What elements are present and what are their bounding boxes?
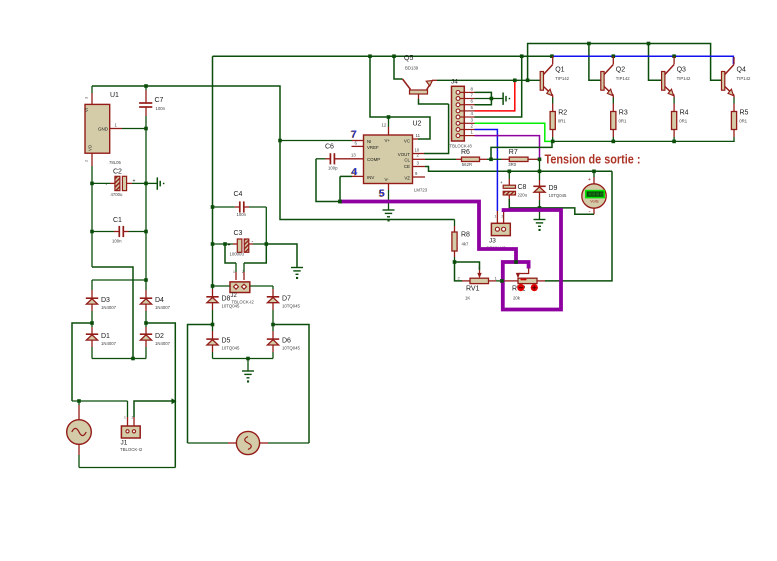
svg-text:2: 2 bbox=[132, 416, 134, 420]
wire bridge1 left AC to source bbox=[72, 323, 92, 401]
U1 pin GND wire bbox=[110, 128, 122, 130]
transistor Q3 bbox=[662, 72, 665, 91]
capacitor C1 bbox=[90, 230, 94, 234]
wire base Q3 bbox=[649, 44, 662, 81]
diode D1 bbox=[91, 323, 93, 327]
svg-text:Q5: Q5 bbox=[404, 55, 413, 62]
wire output rail to RV2 bbox=[545, 171, 612, 281]
wire source1 bottom rail bbox=[79, 467, 175, 469]
svg-text:VO: VO bbox=[88, 144, 93, 151]
svg-text:C2: C2 bbox=[113, 169, 122, 176]
J4 pin 3 bbox=[460, 122, 475, 124]
wire J4 pin4 to rail bbox=[475, 56, 522, 117]
svg-text:Q3: Q3 bbox=[677, 67, 686, 74]
battery terminal at C2 row bbox=[146, 182, 157, 184]
wire emitter rail y141 bbox=[551, 140, 735, 142]
wire bridge1 bottom rail bbox=[92, 358, 146, 360]
transistor Q4 bbox=[722, 72, 725, 91]
wire base Q2 bbox=[589, 44, 601, 81]
U1 pin VO wire bbox=[91, 153, 93, 166]
node bridge1 left AC bbox=[90, 321, 94, 325]
svg-text:D5: D5 bbox=[222, 338, 231, 345]
wire C4 right down bbox=[265, 207, 267, 244]
wire Q5 emitter to base rail bbox=[432, 79, 437, 81]
resistor R8 bbox=[454, 220, 456, 227]
svg-text:TIP142: TIP142 bbox=[616, 76, 630, 81]
svg-text:D6: D6 bbox=[282, 338, 291, 345]
battery terminal at J4 bbox=[502, 93, 504, 105]
node purple T bbox=[514, 260, 518, 264]
potentiometer RV2 bbox=[518, 278, 537, 283]
svg-text:COMP: COMP bbox=[367, 157, 380, 162]
wire J4 pin3 lime bbox=[475, 123, 552, 141]
node purple T redraw bbox=[514, 260, 518, 264]
svg-text:R7: R7 bbox=[509, 149, 518, 156]
ground output bbox=[539, 208, 541, 220]
svg-text:2: 2 bbox=[502, 215, 504, 219]
svg-text:Q2: Q2 bbox=[616, 67, 625, 74]
regulator U1 bbox=[85, 104, 110, 153]
svg-text:3: 3 bbox=[478, 266, 480, 270]
wire bridge2 right AC to source2 bbox=[273, 325, 309, 444]
node bridge2 ground bbox=[246, 357, 250, 361]
node J2 left bbox=[211, 284, 215, 288]
svg-text:0R1: 0R1 bbox=[619, 118, 627, 123]
wire RV2 right bbox=[537, 280, 545, 282]
terminal block J3 bbox=[496, 211, 498, 223]
capacitor C3 bbox=[211, 242, 215, 246]
node R8 bottom bbox=[453, 260, 457, 264]
node rail-V+ drop bbox=[368, 54, 372, 58]
resistor R3 bbox=[611, 112, 616, 130]
wire mid column x146 bbox=[145, 129, 147, 281]
resistor R5 bbox=[731, 112, 736, 130]
svg-text:Volts: Volts bbox=[590, 198, 598, 203]
wire VOUT to Q5 base bbox=[413, 153, 425, 155]
wire J2 row left bbox=[213, 285, 230, 287]
svg-text:U2: U2 bbox=[413, 121, 422, 128]
resistor R4 bbox=[672, 112, 677, 130]
svg-text:Q4: Q4 bbox=[737, 67, 746, 74]
svg-text:C1: C1 bbox=[113, 217, 122, 224]
node analog ground bbox=[538, 206, 542, 210]
svg-text:3: 3 bbox=[85, 97, 89, 99]
U1 pin VI wire bbox=[91, 93, 93, 104]
wire J4 pin2 blue bbox=[475, 130, 498, 212]
node feedback redraw bbox=[338, 200, 342, 204]
svg-text:0R1: 0R1 bbox=[739, 118, 747, 123]
diode D3 bbox=[91, 280, 93, 290]
svg-text:TIP142: TIP142 bbox=[555, 76, 569, 81]
svg-text:100p: 100p bbox=[328, 166, 338, 171]
svg-text:1N4007: 1N4007 bbox=[155, 341, 171, 346]
node pin7 bbox=[490, 97, 494, 101]
transistor Q5 BD139 bbox=[394, 56, 403, 79]
terminal block J4 bbox=[452, 86, 465, 141]
svg-text:D4: D4 bbox=[155, 297, 164, 304]
svg-text:+: + bbox=[228, 243, 231, 249]
pin VREF stub bbox=[352, 145, 364, 147]
wire J4 pin5 red bbox=[475, 80, 515, 111]
IC U2 LM723 bbox=[364, 135, 413, 184]
svg-text:Q1: Q1 bbox=[555, 67, 564, 74]
svg-text:V+: V+ bbox=[385, 138, 391, 143]
svg-text:NI: NI bbox=[367, 139, 371, 144]
wire Q5 base down bbox=[418, 94, 420, 99]
potentiometer RV1 bbox=[462, 280, 470, 282]
node rail-Q5 drop bbox=[392, 54, 396, 58]
svg-text:D3: D3 bbox=[101, 297, 110, 304]
svg-text:10000u: 10000u bbox=[230, 252, 245, 257]
svg-text:4k7: 4k7 bbox=[462, 242, 470, 247]
wire node to output rail bbox=[539, 159, 541, 171]
capacitor C2 bbox=[90, 182, 94, 186]
node emitter R3 bbox=[612, 140, 616, 144]
node bridge2 right AC bbox=[271, 323, 275, 327]
svg-text:10TQ045: 10TQ045 bbox=[222, 346, 241, 351]
wire RV1-RV2 link bbox=[504, 280, 518, 282]
diode D6 bbox=[272, 325, 274, 332]
svg-text:J1: J1 bbox=[121, 439, 128, 446]
ground bridge2 bbox=[247, 359, 249, 372]
voltmeter bbox=[593, 171, 595, 177]
svg-text:TBLOCK-I8: TBLOCK-I8 bbox=[450, 144, 473, 149]
svg-text:R5: R5 bbox=[740, 110, 749, 117]
svg-text:R6: R6 bbox=[461, 149, 470, 156]
wire top rail y86 bbox=[92, 86, 455, 220]
terminal block J1 bbox=[127, 401, 129, 417]
svg-text:D2: D2 bbox=[155, 333, 164, 340]
node bridge2 left AC bbox=[211, 323, 215, 327]
J4 pin 8 bbox=[460, 91, 475, 93]
svg-text:TBLOCK-I2: TBLOCK-I2 bbox=[120, 447, 143, 452]
node base rail Q5 side bbox=[526, 79, 530, 83]
wire R8 to RV1 left bbox=[455, 262, 463, 281]
svg-text:3R0: 3R0 bbox=[508, 162, 516, 167]
wire J2 pin2 link bbox=[244, 244, 266, 263]
AC source V1 bbox=[78, 401, 80, 405]
svg-text:CL: CL bbox=[404, 157, 410, 162]
wire INV pin bbox=[352, 175, 364, 177]
resistor R7 bbox=[502, 158, 510, 160]
node bridge1 bottom bbox=[131, 357, 135, 361]
svg-text:C3: C3 bbox=[234, 230, 243, 237]
node purple-RV junction bbox=[500, 279, 504, 283]
wire left column x92 bbox=[91, 183, 93, 267]
svg-text:1K: 1K bbox=[465, 296, 470, 301]
svg-text:78L05: 78L05 bbox=[109, 160, 122, 165]
svg-text:1: 1 bbox=[495, 215, 497, 219]
node collector Q1 bbox=[550, 54, 554, 58]
svg-text:4700u: 4700u bbox=[111, 192, 124, 197]
J4 pin 7 bbox=[460, 98, 475, 100]
ground near C3 bbox=[291, 267, 303, 269]
wire collector bus blue bbox=[552, 56, 734, 64]
J4 pin 5 bbox=[460, 110, 475, 112]
node emitter R4 bbox=[672, 140, 676, 144]
diode D5 bbox=[212, 325, 214, 332]
svg-text:10TQ045: 10TQ045 bbox=[282, 303, 301, 308]
wire CE to output rail bbox=[413, 166, 426, 168]
svg-text:D1: D1 bbox=[101, 333, 110, 340]
wire bridge2 bottom rail bbox=[213, 358, 274, 360]
svg-text:220u: 220u bbox=[518, 193, 528, 198]
diode D4 bbox=[145, 280, 147, 290]
node feedback bbox=[338, 200, 342, 204]
svg-text:10TQ045: 10TQ045 bbox=[222, 303, 241, 308]
svg-text:R8: R8 bbox=[461, 232, 470, 239]
wire RV2 wiper bbox=[518, 268, 529, 274]
svg-text:VI: VI bbox=[84, 108, 89, 112]
svg-text:13: 13 bbox=[351, 153, 356, 158]
svg-text:2: 2 bbox=[242, 270, 244, 274]
node meter top bbox=[592, 170, 596, 174]
svg-text:VOUT: VOUT bbox=[398, 152, 411, 157]
svg-text:J2: J2 bbox=[231, 293, 238, 299]
wire R8 to RV1 wiper bbox=[455, 262, 480, 270]
node V+ junction bbox=[387, 115, 391, 119]
svg-text:VZ: VZ bbox=[404, 175, 410, 180]
diode D2 bbox=[145, 323, 147, 327]
wire C3 to ground bbox=[266, 244, 297, 268]
svg-text:V-: V- bbox=[385, 177, 390, 182]
svg-text:100n: 100n bbox=[156, 106, 166, 111]
J4 pin 4 bbox=[460, 116, 475, 118]
svg-text:10TQ045: 10TQ045 bbox=[282, 346, 301, 351]
wire CL to R6 bbox=[413, 158, 426, 160]
AC source V2 bbox=[188, 442, 229, 444]
svg-text:R4: R4 bbox=[680, 110, 689, 117]
wire meter minus bbox=[593, 208, 595, 214]
node U1-GND bbox=[144, 127, 148, 131]
transistor Q1 bbox=[540, 72, 543, 91]
node R6-R7 bbox=[489, 158, 493, 162]
ground U2 bbox=[383, 209, 395, 211]
wire feedback purple main bbox=[340, 202, 516, 263]
svg-text:INV: INV bbox=[367, 175, 374, 180]
svg-text:2: 2 bbox=[85, 160, 89, 162]
J4 pin 1 bbox=[460, 135, 475, 137]
wire V+ stub bbox=[388, 117, 390, 127]
svg-text:100n: 100n bbox=[112, 239, 122, 244]
J4 pin 2 bbox=[460, 129, 475, 131]
node C8 top bbox=[508, 170, 512, 174]
node C2-right bbox=[144, 182, 148, 186]
svg-text:CE: CE bbox=[404, 164, 410, 169]
wire main supply rail y56 bbox=[213, 55, 552, 57]
wire supply column x212 bbox=[212, 56, 214, 286]
node emitter R2 bbox=[551, 140, 555, 144]
node bridge1 right AC bbox=[144, 321, 148, 325]
diode D8 bbox=[212, 286, 214, 289]
node collector Q3 bbox=[672, 54, 676, 58]
svg-text:J3: J3 bbox=[489, 238, 496, 245]
svg-text:J4: J4 bbox=[451, 79, 458, 86]
svg-text:1N4007: 1N4007 bbox=[155, 305, 171, 310]
svg-text:C8: C8 bbox=[518, 184, 527, 191]
svg-text:+: + bbox=[500, 180, 503, 185]
svg-text:5: 5 bbox=[379, 188, 385, 200]
wire purple to wiper bbox=[516, 262, 529, 269]
svg-text:GND: GND bbox=[98, 127, 109, 132]
wire purple loop bbox=[503, 210, 561, 310]
svg-text:RV1: RV1 bbox=[466, 286, 480, 293]
wire bridge1 top rail bbox=[92, 279, 146, 281]
svg-text:10TQ045: 10TQ045 bbox=[549, 193, 568, 198]
wire J2 pin1 link bbox=[225, 244, 236, 263]
svg-text:R2: R2 bbox=[558, 110, 567, 117]
svg-text:VC: VC bbox=[404, 139, 410, 144]
wire C6 to feedback node bbox=[316, 159, 340, 202]
svg-text:R3: R3 bbox=[619, 110, 628, 117]
wire V+ feed bbox=[370, 56, 430, 139]
capacitor C7 bbox=[145, 86, 147, 90]
diode D9 bbox=[539, 171, 541, 180]
capacitor C8 bbox=[508, 171, 510, 179]
svg-text:D7: D7 bbox=[282, 295, 291, 302]
svg-text:100n: 100n bbox=[237, 212, 247, 217]
wire sense to R2 rail bbox=[491, 141, 552, 159]
svg-text:1N4007: 1N4007 bbox=[101, 305, 117, 310]
node rail-C7 bbox=[144, 84, 148, 88]
svg-text:VREF: VREF bbox=[367, 145, 379, 150]
svg-text:20k: 20k bbox=[513, 296, 521, 301]
pin V- ground bbox=[388, 184, 390, 191]
transistor Q2 bbox=[601, 72, 604, 91]
svg-text:D8: D8 bbox=[222, 295, 231, 302]
capacitor C4 bbox=[211, 205, 215, 209]
wire NI pin bbox=[278, 139, 282, 143]
node D9 top bbox=[538, 170, 542, 174]
node bridge1 top bbox=[144, 278, 148, 282]
svg-text:BD139: BD139 bbox=[405, 66, 419, 71]
svg-text:C7: C7 bbox=[155, 97, 164, 104]
svg-text:+: + bbox=[588, 177, 591, 183]
svg-text:1N4007: 1N4007 bbox=[101, 341, 117, 346]
node rail-pin4 drop bbox=[520, 54, 524, 58]
svg-text:11: 11 bbox=[416, 133, 421, 138]
svg-text:D9: D9 bbox=[549, 185, 558, 192]
svg-text:LM723: LM723 bbox=[414, 188, 428, 193]
wire AC1 node row bbox=[72, 400, 128, 402]
wire J4 pin8-pin6 loop bbox=[475, 92, 492, 104]
terminal block J2 bbox=[230, 282, 250, 293]
wire bridge2 left AC to source2 bbox=[188, 325, 213, 444]
svg-text:12: 12 bbox=[382, 123, 387, 128]
node RV1-RV2 bbox=[500, 279, 504, 283]
svg-text:C6: C6 bbox=[325, 144, 334, 151]
wire U1 column to bridge center bbox=[92, 267, 133, 359]
svg-text:Tension de sortie :: Tension de sortie : bbox=[545, 152, 641, 167]
node base drop Q2 bbox=[587, 42, 591, 46]
svg-text:TIP142: TIP142 bbox=[677, 76, 691, 81]
svg-text:+: + bbox=[133, 179, 136, 185]
resistor R2 bbox=[550, 112, 555, 130]
svg-text:0R1: 0R1 bbox=[558, 118, 566, 123]
svg-text:U1: U1 bbox=[110, 92, 119, 99]
wire bridge1 right AC down bbox=[146, 323, 175, 468]
node pin5-basewire bbox=[513, 79, 517, 83]
svg-text:7: 7 bbox=[351, 129, 357, 141]
wire base rail y43 bbox=[528, 44, 722, 81]
svg-text:0R1: 0R1 bbox=[679, 118, 687, 123]
svg-text:C4: C4 bbox=[234, 191, 243, 198]
wire J4 pin7 to battery bbox=[475, 98, 504, 100]
J4 pin 6 bbox=[460, 104, 475, 106]
node C3-right bbox=[265, 242, 269, 246]
diode D7 bbox=[272, 286, 274, 289]
svg-text:562R: 562R bbox=[462, 162, 472, 167]
RV2 adjust buttons bbox=[517, 284, 524, 291]
node source1 top bbox=[77, 399, 81, 403]
svg-text:1: 1 bbox=[233, 270, 235, 274]
capacitor C6 bbox=[335, 158, 364, 160]
svg-text:TIP142: TIP142 bbox=[737, 76, 751, 81]
wire J4 pin1 purple bbox=[475, 136, 540, 160]
resistor R6 bbox=[456, 158, 462, 160]
node base drop Q3 bbox=[647, 42, 651, 46]
svg-text:1: 1 bbox=[124, 416, 126, 420]
wire J2 row right bbox=[250, 285, 273, 287]
pin VZ stub bbox=[413, 176, 426, 178]
node collector Q2 bbox=[612, 54, 616, 58]
node output sense bbox=[538, 158, 542, 162]
